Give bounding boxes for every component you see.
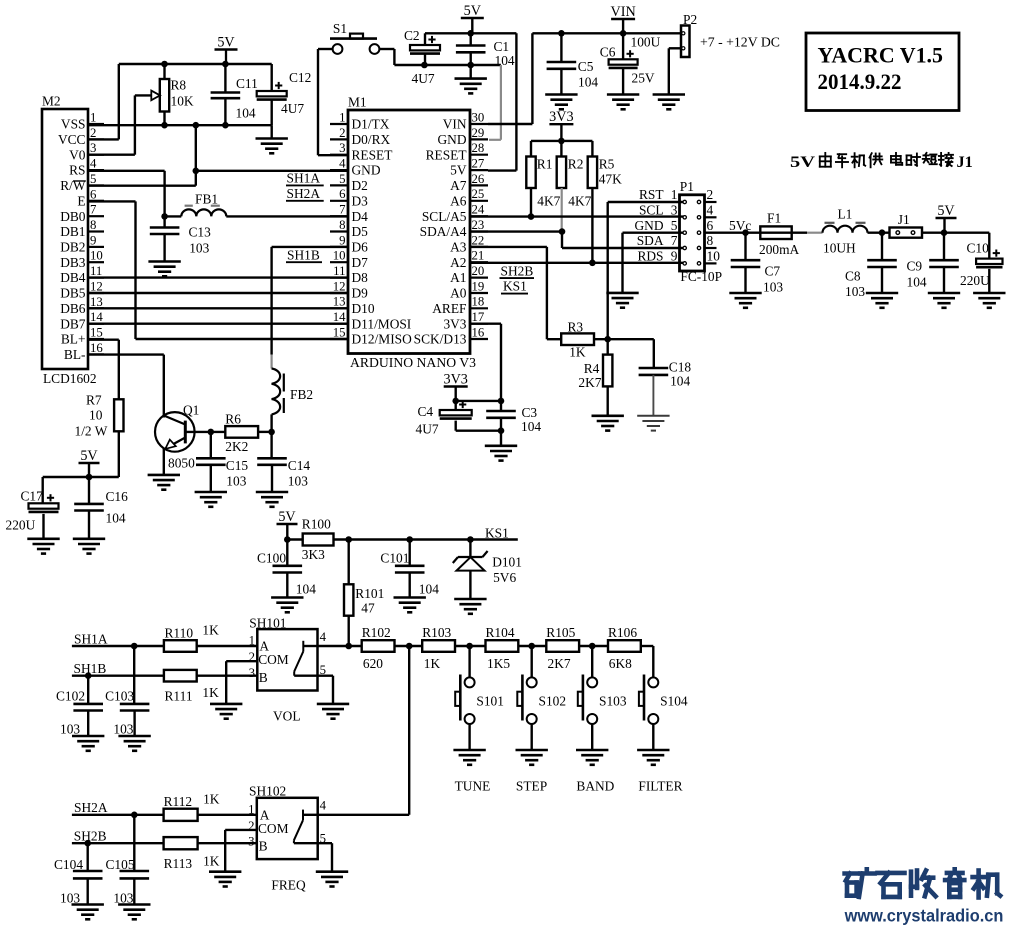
analog switch SH101 VOL: [249, 616, 327, 691]
svg-text:1K: 1K: [202, 623, 219, 638]
net label KS1 (pin A0): [501, 279, 528, 294]
svg-text:SCL/A5: SCL/A5: [422, 209, 467, 224]
power symbol 5V (output): [936, 203, 957, 233]
svg-text:R104: R104: [486, 625, 515, 640]
svg-text:22: 22: [472, 233, 485, 247]
svg-text:L1: L1: [838, 207, 853, 222]
resistor R102 620: [362, 625, 395, 671]
ground under C12: [256, 125, 288, 153]
svg-text:103: 103: [226, 474, 246, 489]
svg-text:103: 103: [288, 474, 308, 489]
svg-text:B: B: [259, 839, 268, 854]
svg-text:1: 1: [339, 110, 345, 124]
svg-text:4U7: 4U7: [281, 101, 304, 116]
svg-text:14: 14: [333, 310, 346, 324]
ground under SH101 pin5: [317, 704, 349, 719]
wire F1 to L1: [807, 232, 823, 234]
svg-text:9: 9: [671, 249, 678, 264]
svg-text:Q1: Q1: [183, 402, 199, 417]
svg-text:10: 10: [90, 249, 103, 263]
svg-text:C100: C100: [257, 551, 286, 566]
wire BL- to Q1 collector: [88, 355, 164, 416]
svg-text:5V: 5V: [450, 163, 467, 178]
svg-text:5: 5: [339, 172, 345, 186]
resistor R5 47K: [588, 141, 622, 263]
svg-text:104: 104: [521, 419, 541, 434]
resistor R7 10 1/2W: [75, 393, 124, 478]
capacitor C11 104: [211, 64, 258, 125]
svg-text:C6: C6: [600, 45, 616, 60]
svg-text:6: 6: [707, 218, 714, 233]
svg-text:3V3: 3V3: [443, 371, 467, 387]
svg-text:DB0: DB0: [60, 209, 86, 224]
ground under C102: [72, 736, 104, 751]
svg-text:SH2B: SH2B: [501, 263, 534, 278]
svg-text:www.crystalradio.cn: www.crystalradio.cn: [844, 906, 1004, 926]
label BAND: [576, 779, 614, 794]
svg-text:16: 16: [90, 341, 103, 355]
resistor R8 10K potentiometer: [135, 64, 194, 125]
wire 3V3 rail: [531, 140, 592, 142]
wire L1 to J1: [868, 229, 890, 236]
capacitor C13 103: [150, 216, 211, 261]
svg-text:VCC: VCC: [58, 132, 86, 147]
svg-text:FREQ: FREQ: [271, 877, 306, 892]
resistor R106 6K8: [608, 625, 641, 671]
svg-text:18: 18: [472, 295, 485, 309]
wire R/W row: [88, 171, 196, 186]
svg-text:D12/MISO: D12/MISO: [352, 332, 413, 347]
svg-text:R113: R113: [164, 856, 193, 871]
svg-text:2: 2: [339, 126, 345, 140]
label FREQ: [271, 877, 306, 892]
wire D6 to FB2: [272, 247, 348, 355]
svg-text:4: 4: [707, 203, 714, 218]
svg-text:16: 16: [472, 325, 485, 339]
svg-text:1/2 W: 1/2 W: [75, 423, 108, 438]
svg-text:COM: COM: [258, 821, 289, 836]
wire VIN to M1 pin 30: [488, 33, 532, 124]
wire DB7 to D11: [88, 323, 348, 325]
svg-text:RESET: RESET: [426, 147, 467, 162]
svg-text:SDA: SDA: [637, 233, 664, 248]
wire DB4 to D8: [88, 276, 348, 278]
svg-text:100U: 100U: [631, 35, 661, 50]
svg-text:1: 1: [248, 802, 254, 816]
svg-text:1K: 1K: [203, 792, 220, 807]
svg-text:C13: C13: [189, 224, 212, 239]
svg-text:TUNE: TUNE: [455, 779, 491, 794]
svg-text:D0/RX: D0/RX: [352, 132, 391, 147]
svg-text:P1: P1: [680, 179, 694, 194]
svg-text:C5: C5: [578, 59, 594, 74]
switch S102: [517, 646, 566, 750]
wire P1 GND to ground: [623, 233, 685, 293]
svg-text:8: 8: [339, 218, 345, 232]
svg-text:VIN: VIN: [443, 117, 467, 132]
capacitor C3 104: [486, 401, 541, 434]
svg-text:F1: F1: [767, 211, 781, 226]
ground under C15: [195, 492, 227, 507]
svg-text:C105: C105: [106, 857, 135, 872]
power symbol 3V3 (lower): [443, 371, 467, 404]
svg-text:R7: R7: [86, 393, 102, 408]
svg-text:D10: D10: [352, 301, 375, 316]
svg-text:R111: R111: [165, 689, 193, 704]
wire SCL/A5 to P1: [470, 213, 684, 220]
inductor FB2: [272, 355, 313, 432]
capacitor C5 104: [547, 33, 599, 94]
svg-text:D7: D7: [352, 255, 369, 270]
capacitor C9 104: [907, 233, 959, 293]
wire 5Vc row: [705, 229, 761, 236]
svg-text:A7: A7: [450, 178, 467, 193]
wire SH101 pin4: [318, 643, 362, 650]
wire J1 to 5V node: [922, 229, 989, 236]
wire S1 left to M1 RESET: [318, 49, 348, 155]
svg-text:8050: 8050: [168, 456, 195, 471]
ground under C7: [729, 293, 761, 308]
svg-text:SH1A: SH1A: [287, 171, 321, 186]
wire SH102 pin4: [318, 814, 410, 816]
wire SH101 COM to ground: [226, 661, 257, 704]
svg-text:104: 104: [236, 106, 256, 121]
svg-text:5V: 5V: [80, 448, 98, 464]
svg-text:29: 29: [472, 126, 485, 140]
wire SH102 pin5 to ground: [318, 843, 332, 872]
svg-text:C101: C101: [380, 551, 409, 566]
capacitor C14 103: [257, 432, 310, 492]
capacitor C6 100U 25V: [600, 33, 661, 94]
svg-text:KS1: KS1: [485, 525, 509, 540]
net label SH1A: [286, 171, 324, 186]
ground under SH102 pin5: [316, 872, 348, 887]
svg-text:M2: M2: [42, 94, 61, 109]
svg-text:104: 104: [495, 53, 515, 68]
ground under C3: [485, 431, 517, 461]
svg-text:103: 103: [763, 280, 783, 295]
svg-text:R4: R4: [584, 361, 600, 376]
svg-text:C10: C10: [967, 241, 990, 256]
svg-text:5V: 5V: [278, 509, 296, 525]
svg-text:SH1B: SH1B: [287, 248, 320, 263]
capacitor C7 103: [731, 233, 784, 295]
svg-text:FC-10P: FC-10P: [680, 269, 722, 284]
svg-text:S101: S101: [476, 693, 504, 708]
label +7 - +12V DC: [700, 35, 780, 50]
wire VSS to M1 GND pin 4: [193, 125, 349, 174]
svg-text:104: 104: [296, 582, 316, 597]
ground under C5: [545, 95, 577, 110]
svg-text:4: 4: [339, 157, 346, 171]
svg-text:220U: 220U: [960, 273, 990, 288]
svg-text:C8: C8: [845, 268, 861, 283]
svg-text:2: 2: [90, 126, 96, 140]
svg-text:C4: C4: [418, 404, 434, 419]
switch S103: [578, 646, 627, 750]
svg-text:10: 10: [707, 249, 721, 264]
svg-text:3: 3: [248, 835, 254, 849]
svg-text:10UH: 10UH: [823, 241, 856, 256]
ground under C16: [73, 539, 105, 554]
svg-text:BL-: BL-: [64, 347, 86, 362]
svg-text:3K3: 3K3: [302, 547, 325, 562]
wire 3V3 cap rail: [456, 400, 501, 402]
svg-text:C2: C2: [404, 28, 420, 43]
svg-text:C7: C7: [765, 264, 781, 279]
svg-text:C18: C18: [669, 360, 692, 375]
svg-text:25: 25: [472, 187, 485, 201]
svg-text:47: 47: [361, 601, 375, 616]
capacitor C4 4U7: [416, 401, 472, 437]
svg-text:LCD1602: LCD1602: [43, 371, 97, 386]
wire A2 to P1 RDS: [470, 260, 684, 267]
svg-text:1K: 1K: [424, 656, 441, 671]
net label SH2B: [500, 263, 535, 278]
capacitor C101 104: [380, 540, 439, 598]
svg-text:2K2: 2K2: [225, 439, 248, 454]
svg-text:4: 4: [90, 157, 97, 171]
svg-text:13: 13: [90, 295, 103, 309]
svg-text:D101: D101: [492, 555, 522, 570]
svg-text:C9: C9: [907, 259, 923, 274]
svg-text:BAND: BAND: [576, 779, 614, 794]
title box YACRC: [806, 33, 959, 111]
wire DB5 to D9: [88, 292, 348, 294]
power symbol 5V (C16): [79, 448, 100, 481]
svg-text:R5: R5: [599, 157, 615, 172]
svg-text:4U7: 4U7: [416, 422, 439, 437]
ground under S102: [516, 750, 548, 765]
svg-text:R1: R1: [537, 157, 553, 172]
switch S1 reset: [330, 21, 379, 54]
ground under C104: [72, 905, 104, 920]
ground under C1: [455, 65, 487, 93]
svg-text:25V: 25V: [632, 71, 655, 86]
transistor Q1 8050: [155, 402, 199, 475]
svg-text:8: 8: [90, 218, 96, 232]
wire SH1A row: [72, 643, 257, 650]
svg-text:R101: R101: [355, 586, 384, 601]
svg-text:26: 26: [472, 172, 485, 186]
wire R6 to FB2 node: [258, 429, 275, 436]
svg-text:7: 7: [339, 203, 346, 217]
inductor L1 10UH: [823, 207, 868, 256]
svg-text:14: 14: [90, 310, 103, 324]
ground under C103: [118, 736, 150, 751]
svg-text:2: 2: [707, 187, 714, 202]
svg-text:104: 104: [419, 582, 439, 597]
connector P1 FC-10P: [634, 179, 722, 284]
wire Q1 base node: [185, 429, 225, 436]
net label KS1: [485, 525, 509, 540]
wire P1 RST to R3 node: [608, 202, 684, 339]
wire SDA/A4 to P1: [470, 228, 684, 248]
wire node R102-R103: [395, 643, 423, 650]
svg-text:5V: 5V: [217, 34, 235, 50]
svg-text:6K8: 6K8: [609, 656, 632, 671]
wire SH101 pin5 to ground: [318, 676, 334, 704]
svg-text:12: 12: [90, 280, 103, 294]
svg-text:STEP: STEP: [516, 779, 547, 794]
svg-text:D1/TX: D1/TX: [352, 117, 390, 132]
wire 5V to M1 pin 27: [488, 33, 516, 170]
label TUNE: [455, 779, 491, 794]
svg-text:R2: R2: [568, 157, 584, 172]
power symbol 5V (keys): [277, 509, 298, 543]
resistor R110 1K: [164, 623, 219, 652]
net label SH1A (keys): [74, 631, 108, 646]
fuse F1 200mA: [759, 211, 807, 258]
svg-text:C3: C3: [522, 405, 538, 420]
svg-text:GND: GND: [634, 218, 663, 233]
label STEP: [516, 779, 547, 794]
wire node S103: [579, 643, 608, 650]
svg-text:3: 3: [339, 141, 345, 155]
svg-text:A1: A1: [450, 270, 466, 285]
svg-text:R8: R8: [171, 78, 187, 93]
svg-text:3V3: 3V3: [443, 316, 466, 331]
ground under R4: [592, 416, 624, 431]
svg-text:D9: D9: [352, 286, 369, 301]
ground under SH101 COM: [210, 704, 242, 719]
svg-text:4K7: 4K7: [537, 194, 560, 209]
logo crystalradio.cn: [844, 869, 1004, 925]
svg-text:1K: 1K: [569, 345, 586, 360]
resistor R113 1K: [164, 837, 220, 871]
capacitor C2 4U7: [404, 28, 440, 86]
inductor FB1: [161, 191, 348, 219]
svg-text:R105: R105: [546, 625, 575, 640]
svg-text:1K: 1K: [203, 853, 220, 868]
switch S104: [639, 675, 688, 751]
analog switch SH102 FREQ: [248, 783, 327, 859]
resistor R105 2K7: [546, 625, 579, 671]
svg-text:6: 6: [339, 187, 346, 201]
svg-text:7: 7: [90, 203, 97, 217]
svg-text:SH101: SH101: [249, 616, 286, 631]
ground under P2: [653, 95, 685, 110]
svg-text:+7 - +12V DC: +7 - +12V DC: [700, 35, 780, 50]
svg-text:5V: 5V: [464, 3, 482, 19]
svg-text:V0: V0: [69, 147, 86, 162]
svg-text:10K: 10K: [171, 94, 194, 109]
svg-text:1: 1: [671, 187, 678, 202]
svg-text:28: 28: [472, 141, 485, 155]
svg-text:D8: D8: [352, 270, 369, 285]
svg-text:104: 104: [907, 274, 927, 289]
svg-text:27: 27: [472, 157, 485, 171]
svg-text:9: 9: [339, 233, 345, 247]
resistor R4 2K7: [578, 339, 612, 416]
svg-text:15: 15: [333, 325, 346, 339]
svg-text:SH102: SH102: [249, 783, 286, 798]
svg-text:YACRC V1.5: YACRC V1.5: [818, 43, 944, 68]
svg-text:C104: C104: [54, 857, 83, 872]
svg-text:1: 1: [90, 111, 96, 125]
net label SH2A (keys): [74, 800, 108, 815]
wire P2 pin2 to ground: [669, 48, 681, 94]
svg-text:104: 104: [670, 374, 690, 389]
svg-text:220U: 220U: [6, 518, 36, 533]
svg-text:ARDUINO NANO V3: ARDUINO NANO V3: [350, 355, 476, 370]
svg-text:D5: D5: [352, 224, 369, 239]
svg-text:4U7: 4U7: [412, 71, 435, 86]
svg-text:R106: R106: [608, 625, 637, 640]
ground under C18: [637, 416, 669, 431]
svg-text:SH2A: SH2A: [74, 800, 108, 815]
svg-text:4: 4: [320, 799, 327, 813]
jumper J1: [890, 212, 923, 238]
svg-text:103: 103: [189, 240, 209, 255]
wire 3V3 pin17 down: [470, 324, 504, 405]
capacitor C1 104: [456, 33, 515, 68]
capacitor C105 103: [106, 815, 150, 906]
power symbol 3V3: [549, 109, 573, 144]
capacitor C100 104: [257, 540, 316, 598]
svg-text:15: 15: [90, 326, 103, 340]
resistor R104 1K5: [486, 625, 519, 671]
svg-text:R3: R3: [568, 319, 584, 334]
svg-text:1: 1: [249, 634, 255, 648]
svg-text:S102: S102: [539, 693, 567, 708]
svg-text:47K: 47K: [599, 172, 622, 187]
resistor R101 47: [344, 540, 384, 647]
svg-text:C1: C1: [494, 39, 510, 54]
ground under Q1: [148, 475, 180, 490]
capacitor C18 104: [639, 339, 692, 416]
ground under C13: [148, 262, 180, 277]
svg-text:GND: GND: [352, 163, 381, 178]
wire 5V cap rail: [43, 476, 119, 478]
resistor R103 1K: [422, 625, 455, 671]
svg-text:R102: R102: [362, 625, 391, 640]
svg-text:5V: 5V: [937, 203, 955, 219]
svg-text:4K7: 4K7: [568, 194, 591, 209]
svg-text:D3: D3: [352, 193, 369, 208]
svg-text:103: 103: [113, 722, 133, 737]
capacitor C12 4U7: [257, 64, 312, 125]
svg-text:13: 13: [333, 295, 346, 309]
ground under C100: [271, 598, 303, 613]
svg-text:2014.9.22: 2014.9.22: [818, 69, 902, 94]
connector P2: [681, 12, 697, 57]
ground under C105: [118, 905, 150, 920]
svg-text:R112: R112: [164, 794, 193, 809]
capacitor C15 103: [196, 432, 248, 492]
svg-text:10: 10: [333, 249, 346, 263]
svg-text:VOL: VOL: [273, 709, 301, 724]
wire RS row: [88, 170, 165, 172]
ground under C17: [27, 539, 59, 554]
svg-text:DB1: DB1: [60, 224, 85, 239]
capacitor C8 103: [845, 233, 897, 299]
ground under D101: [454, 599, 486, 614]
svg-text:4: 4: [320, 630, 327, 644]
svg-text:R100: R100: [302, 516, 331, 531]
resistor R2 4K7: [557, 141, 592, 232]
svg-text:620: 620: [363, 656, 383, 671]
wire KS1 row: [287, 536, 518, 543]
svg-text:GND: GND: [437, 132, 466, 147]
svg-text:A2: A2: [450, 255, 466, 270]
svg-text:DB5: DB5: [60, 286, 86, 301]
svg-text:VIN: VIN: [610, 4, 635, 20]
svg-text:DB4: DB4: [60, 270, 86, 285]
svg-text:9: 9: [90, 233, 96, 247]
svg-text:3: 3: [90, 141, 96, 155]
svg-text:1K: 1K: [202, 685, 219, 700]
